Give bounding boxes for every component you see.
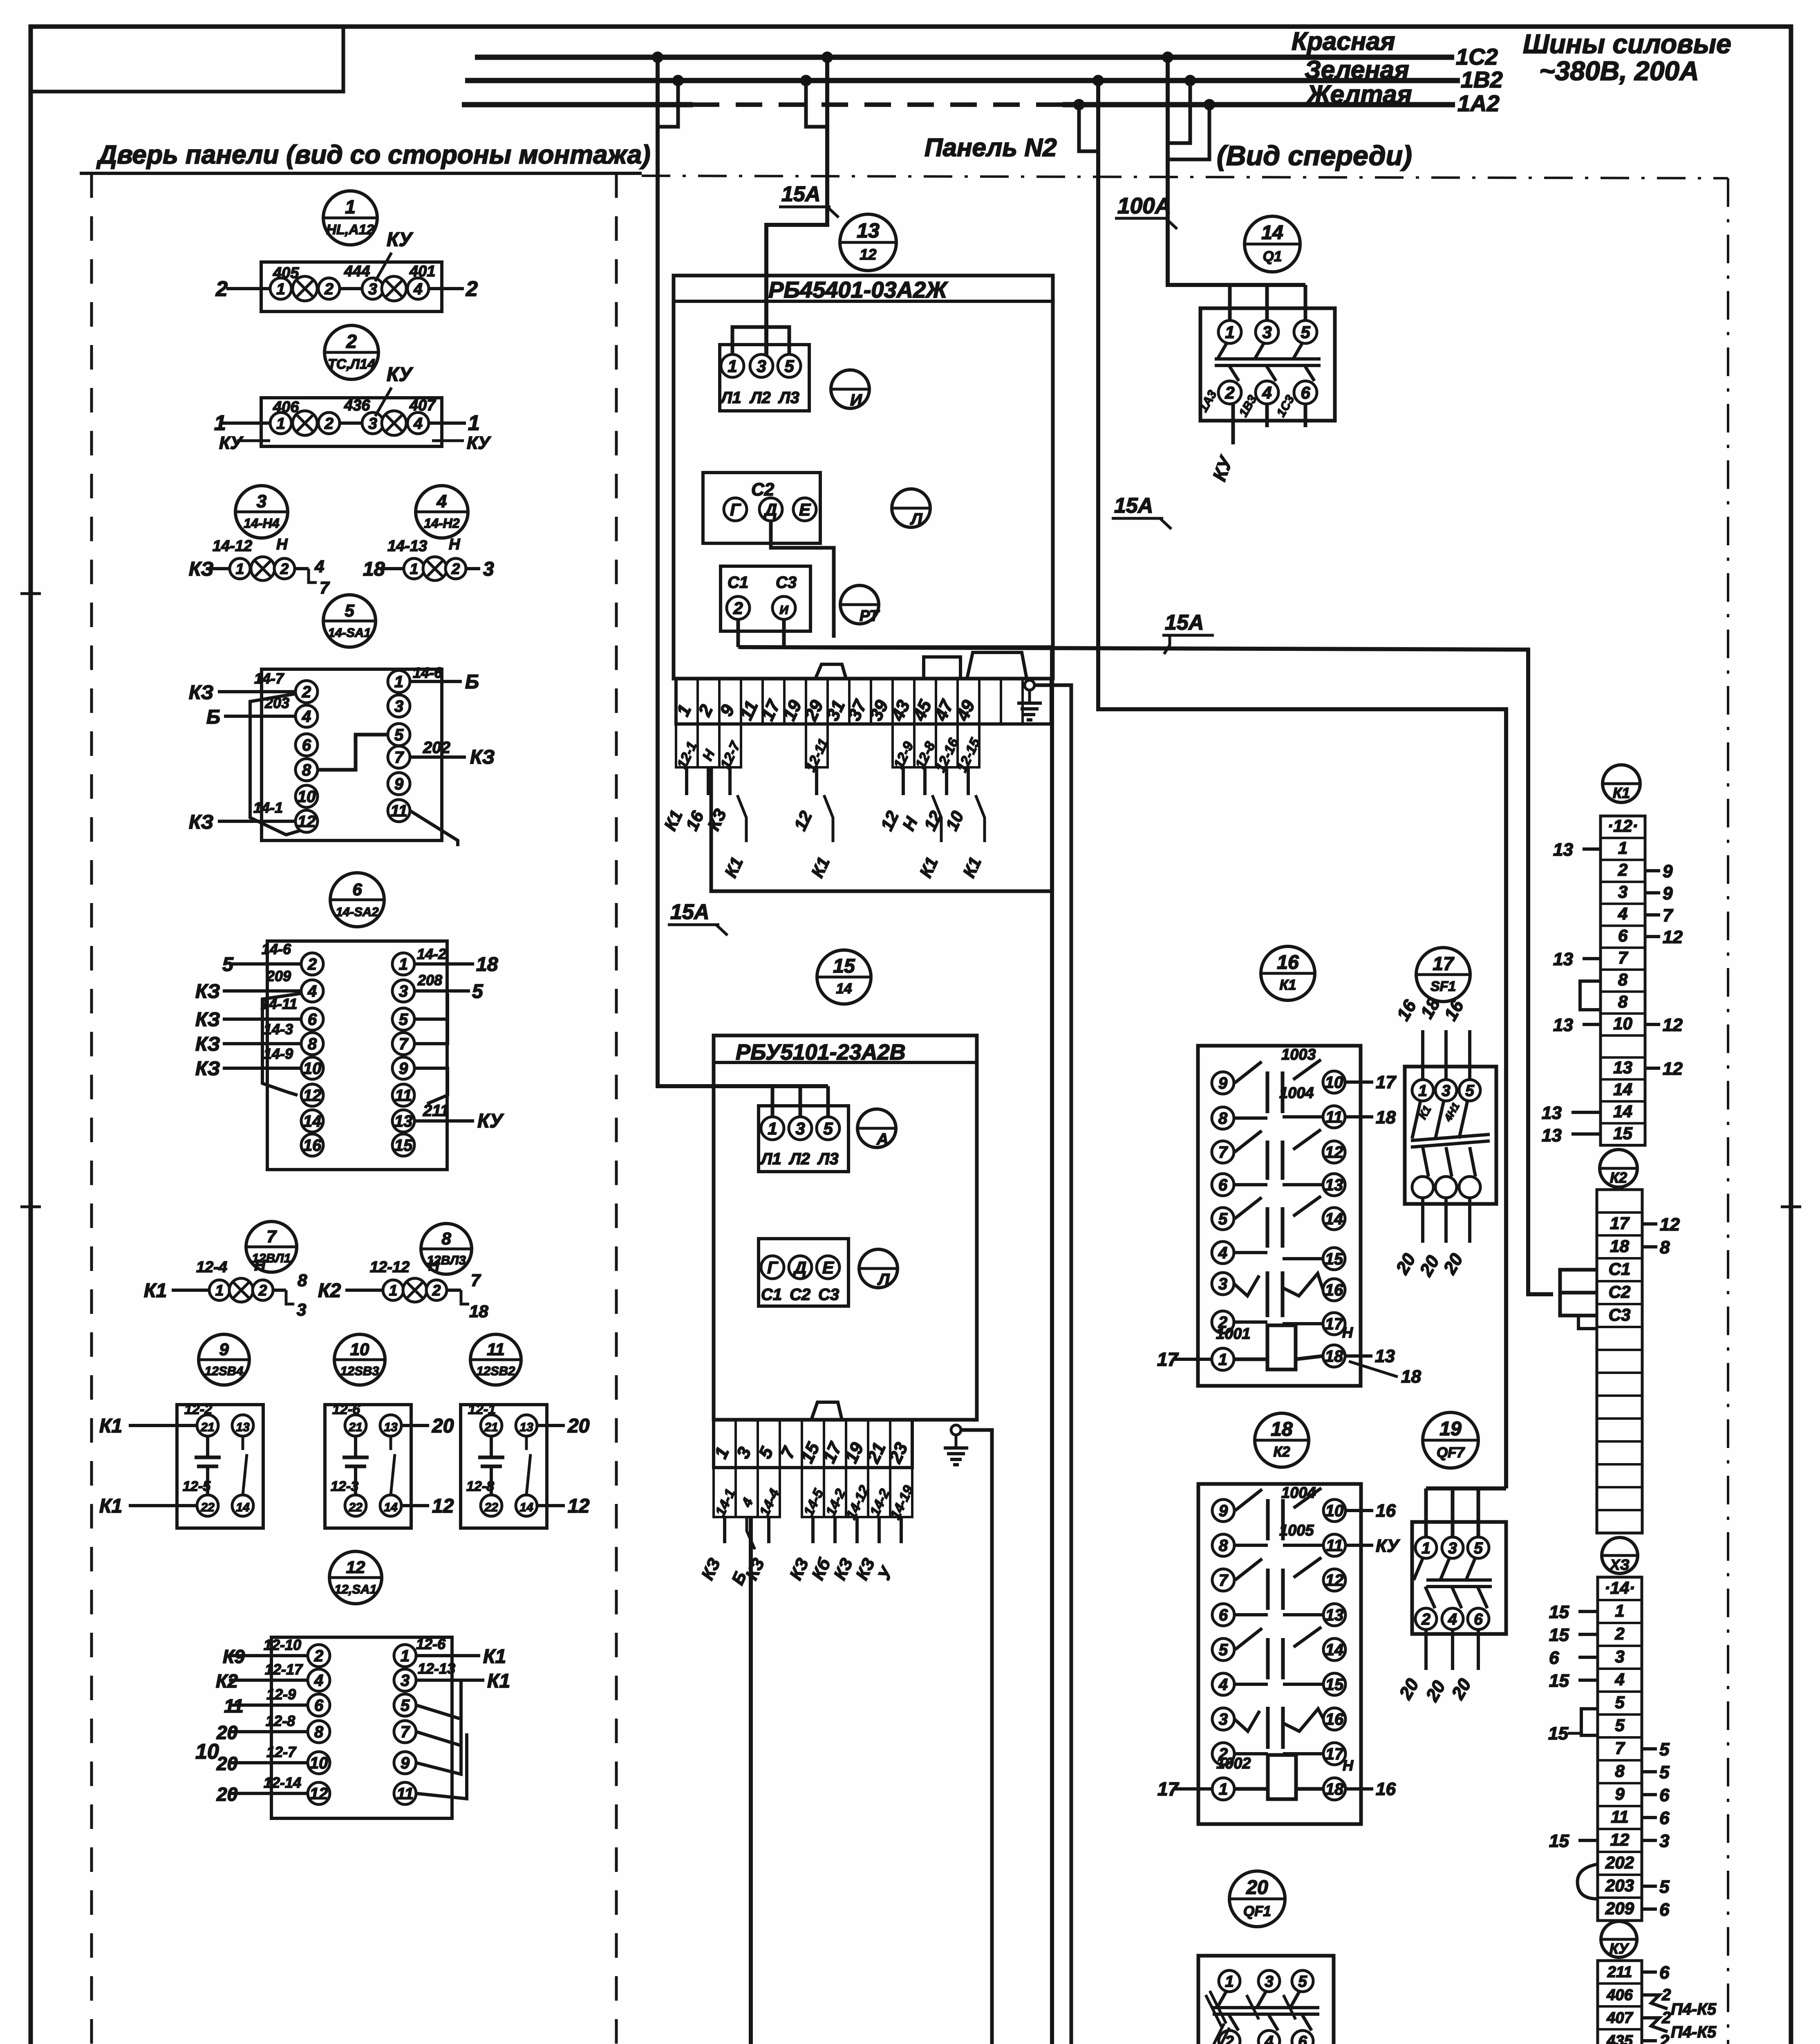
svg-text:12-17: 12-17 xyxy=(265,1661,303,1678)
svg-text:17: 17 xyxy=(1157,1349,1179,1370)
relay К1 pin 2 xyxy=(1212,1311,1234,1333)
svg-text:12-9: 12-9 xyxy=(266,1686,296,1703)
block 13 terminal Д xyxy=(759,498,782,521)
block 13 terminal И xyxy=(772,596,795,619)
relay К2 pin 4 xyxy=(1212,1673,1234,1695)
svg-text:12: 12 xyxy=(1660,1215,1680,1235)
svg-text:2: 2 xyxy=(1618,860,1627,879)
svg-text:14: 14 xyxy=(1325,1641,1344,1659)
breaker 20/QF1 linkage bar xyxy=(1213,2006,1319,2009)
button 10 designator circle xyxy=(334,1334,385,1385)
svg-text:15: 15 xyxy=(1549,1831,1569,1851)
svg-text:406: 406 xyxy=(1606,1986,1633,2004)
svg-text:1: 1 xyxy=(345,196,356,217)
svg-text:12-13: 12-13 xyxy=(418,1660,455,1677)
svg-text:2: 2 xyxy=(324,415,334,433)
svg-text:11: 11 xyxy=(390,802,407,820)
svg-text:РТ: РТ xyxy=(860,607,880,625)
svg-text:1: 1 xyxy=(215,1282,224,1299)
svg-text:13: 13 xyxy=(1325,1176,1343,1194)
svg-text:6: 6 xyxy=(1218,1176,1228,1194)
svg-text:КЗ: КЗ xyxy=(189,558,213,580)
svg-text:14: 14 xyxy=(384,1501,398,1514)
svg-text:1: 1 xyxy=(410,560,419,577)
breaker 14/Q1 terminal 1 xyxy=(1218,320,1241,343)
relay К2 pin 5 xyxy=(1212,1638,1234,1661)
relay К1 pin 15 xyxy=(1323,1248,1345,1270)
block 15 lamp Л circle xyxy=(859,1249,898,1288)
lamp unit 2 terminal 3 xyxy=(362,412,383,434)
svg-text:С2: С2 xyxy=(790,1286,810,1304)
lamp unit 1 HL,A12 designator circle xyxy=(323,191,377,245)
breaker 20/QF1 terminal 2 xyxy=(1219,2031,1240,2044)
svg-text:1: 1 xyxy=(236,560,244,577)
svg-text:14: 14 xyxy=(1325,1210,1343,1228)
switch 6 right terminals 1..15 xyxy=(392,953,414,975)
button 10 box xyxy=(325,1405,411,1528)
svg-text:19: 19 xyxy=(1439,1418,1462,1440)
svg-text:Е: Е xyxy=(799,500,811,519)
svg-text:8: 8 xyxy=(1660,1237,1670,1257)
svg-text:14: 14 xyxy=(1261,222,1283,244)
button 11 terminal 14 xyxy=(516,1495,537,1516)
Q1 output wires 4 6 xyxy=(1265,404,1269,427)
lamp 8 designator circle xyxy=(421,1224,472,1274)
button 9 designator circle xyxy=(199,1334,249,1385)
button 10 actuator symbol xyxy=(354,1436,357,1457)
lamp 4 terminal 2 xyxy=(445,558,466,579)
svg-text:14-7: 14-7 xyxy=(254,670,284,687)
svg-text:1: 1 xyxy=(1418,1082,1427,1100)
svg-text:12: 12 xyxy=(1325,1143,1343,1161)
svg-text:15А: 15А xyxy=(670,900,709,924)
SF1 top wires xyxy=(1421,1030,1424,1080)
КУ strip right stubs xyxy=(1642,1970,1657,1974)
svg-text:3: 3 xyxy=(1618,882,1627,901)
svg-text:4: 4 xyxy=(314,1672,323,1690)
svg-text:6: 6 xyxy=(1301,383,1310,402)
svg-text:Н: Н xyxy=(428,1257,440,1274)
lamp 3 designator circle xyxy=(235,486,288,538)
breaker 14/Q1 pole contacts xyxy=(1218,343,1227,359)
svg-text:4: 4 xyxy=(1218,1244,1227,1262)
svg-text:12: 12 xyxy=(860,246,877,263)
svg-text:14-SА1: 14-SА1 xyxy=(328,625,371,640)
svg-text:С1: С1 xyxy=(761,1286,782,1304)
block 13 wires below strip xyxy=(685,767,688,795)
svg-text:П4-К5: П4-К5 xyxy=(1671,2000,1717,2018)
block 15 terminal Д xyxy=(789,1256,812,1279)
svg-text:16: 16 xyxy=(1325,1281,1343,1299)
svg-text:12-6: 12-6 xyxy=(416,1636,446,1652)
svg-text:12: 12 xyxy=(298,813,316,831)
switch 6 left terminals 2..16 xyxy=(301,953,323,975)
lamp unit 1 lamp HL1 xyxy=(293,276,317,301)
svg-text:3: 3 xyxy=(1448,1540,1457,1557)
lamp 8 lamp xyxy=(403,1278,427,1302)
svg-text:10: 10 xyxy=(1613,1014,1632,1033)
svg-text:8: 8 xyxy=(1615,1761,1625,1780)
breaker 19/QF7 pole contacts xyxy=(1414,1558,1423,1580)
svg-text:К1: К1 xyxy=(483,1646,506,1667)
svg-text:~380В, 200А: ~380В, 200А xyxy=(1539,56,1699,86)
svg-text:10: 10 xyxy=(350,1340,369,1359)
block 13 L1L2L3 terminal box xyxy=(720,345,809,411)
svg-text:6: 6 xyxy=(1474,1611,1483,1628)
block 15 ГДЕ box xyxy=(759,1239,848,1306)
svg-text:Q1: Q1 xyxy=(1263,249,1282,264)
relay К2 pin 16 xyxy=(1323,1708,1345,1730)
svg-text:Б: Б xyxy=(465,671,479,693)
svg-text:13: 13 xyxy=(1542,1103,1562,1123)
relay К1 contact group 4 xyxy=(1234,1275,1259,1296)
svg-text:2: 2 xyxy=(307,955,317,973)
svg-text:13: 13 xyxy=(519,1421,533,1434)
terminal strip К1 designator circle xyxy=(1603,765,1640,802)
bus hook line2 to wire B xyxy=(806,81,827,127)
svg-text:К1: К1 xyxy=(144,1280,167,1302)
svg-text:8: 8 xyxy=(314,1723,324,1741)
block 15 wires below strip xyxy=(723,1517,726,1543)
svg-text:2: 2 xyxy=(733,598,743,618)
svg-text:4: 4 xyxy=(314,557,324,576)
block 13 lamp Л circle xyxy=(892,489,930,527)
svg-text:Зеленая: Зеленая xyxy=(1305,56,1409,84)
block 13 internal bottom wire xyxy=(738,645,1052,649)
svg-text:9: 9 xyxy=(219,1340,229,1359)
svg-text:11: 11 xyxy=(1611,1807,1629,1826)
svg-text:12-8: 12-8 xyxy=(466,1479,494,1494)
svg-text:3: 3 xyxy=(1442,1082,1451,1100)
ХЗ strip left hook 202 xyxy=(1578,1864,1598,1899)
wire block15 ground to null bus xyxy=(961,1430,992,2044)
breaker 20/QF1 box xyxy=(1198,1956,1334,2044)
svg-text:211: 211 xyxy=(1607,1963,1632,1981)
svg-text:1С2: 1С2 xyxy=(1456,44,1498,69)
lamp unit 1 terminal 2 xyxy=(318,278,340,299)
block 13 internal wires from C1 C3 xyxy=(737,619,740,647)
svg-text:4: 4 xyxy=(302,708,311,726)
relay К1 pin 14 xyxy=(1323,1208,1345,1230)
breaker SF1 box xyxy=(1405,1067,1496,1204)
svg-text:К2: К2 xyxy=(216,1670,238,1692)
svg-text:4: 4 xyxy=(1262,383,1272,402)
relay К2 pin 11 xyxy=(1323,1534,1345,1556)
svg-text:11: 11 xyxy=(224,1695,244,1717)
block 13 lower K1 wire labels xyxy=(737,795,746,842)
svg-text:6: 6 xyxy=(302,736,311,754)
svg-text:Н: Н xyxy=(1343,1757,1354,1774)
svg-text:К1: К1 xyxy=(1613,784,1630,801)
svg-text:10: 10 xyxy=(1325,1502,1344,1520)
relay К2 contact group 2 xyxy=(1235,1559,1262,1580)
svg-text:2: 2 xyxy=(314,1647,323,1665)
switch 12 left pin wires xyxy=(229,1654,308,1657)
block 13 terminal 1 xyxy=(721,354,744,377)
svg-text:12-7: 12-7 xyxy=(266,1744,297,1760)
svg-text:14-Н4: 14-Н4 xyxy=(244,516,279,531)
svg-text:·14·: ·14· xyxy=(1605,1578,1635,1597)
breaker SF1 pole contacts xyxy=(1412,1102,1420,1139)
bus 1A2 yellow phase xyxy=(462,102,693,108)
svg-text:20: 20 xyxy=(216,1753,238,1774)
block 13 C1 C3 box xyxy=(721,566,810,631)
svg-text:ХЗ: ХЗ xyxy=(1609,1556,1630,1573)
relay К1 pin 13 xyxy=(1323,1174,1345,1196)
ХЗ strip left bracket 5-5 xyxy=(1581,1709,1598,1735)
relay К1 pin 16 xyxy=(1323,1279,1345,1301)
svg-text:1002: 1002 xyxy=(1216,1755,1251,1772)
lamp unit 2 terminal 2 xyxy=(318,412,340,434)
lamp unit 1 box xyxy=(261,262,442,312)
switch 6 right wires xyxy=(414,962,474,966)
svg-text:203: 203 xyxy=(264,695,289,711)
svg-text:14-6: 14-6 xyxy=(413,664,443,681)
block 13 lamp РТ circle xyxy=(840,585,879,624)
lamp 7 terminal 2 xyxy=(253,1280,273,1300)
relay К2 contact group 1 xyxy=(1235,1489,1262,1511)
breaker 19/QF7 terminal 2 xyxy=(1415,1608,1437,1629)
button 11 actuator symbol xyxy=(490,1436,493,1457)
relay К1 coil xyxy=(1267,1325,1296,1369)
svg-text:203: 203 xyxy=(1605,1876,1634,1895)
breaker 20/QF1 terminal 5 xyxy=(1292,1970,1313,1992)
lamp unit 1 wiring xyxy=(226,287,281,290)
svg-text:12: 12 xyxy=(346,1558,365,1577)
svg-text:QF7: QF7 xyxy=(1437,1445,1465,1461)
switch 5 right wires xyxy=(410,680,462,683)
svg-text:2: 2 xyxy=(451,560,460,577)
svg-text:К2: К2 xyxy=(1274,1444,1291,1460)
svg-text:5: 5 xyxy=(1465,1082,1475,1100)
svg-text:1: 1 xyxy=(276,280,285,298)
lamp 3 lamp xyxy=(251,557,275,580)
lamp 4 wiring xyxy=(382,567,414,570)
relay К2 pin 15 xyxy=(1323,1673,1345,1695)
block 13 terminal 2 xyxy=(727,596,750,619)
frame fold tick right xyxy=(1781,1206,1801,1208)
bus 1C2 red phase xyxy=(475,55,1454,60)
svg-text:15А: 15А xyxy=(1114,494,1153,518)
switch 12 right terminals 1..11 xyxy=(394,1645,416,1667)
svg-text:3: 3 xyxy=(757,356,766,376)
svg-text:14-6: 14-6 xyxy=(262,941,291,957)
svg-text:1: 1 xyxy=(1422,1540,1430,1557)
svg-text:Л1: Л1 xyxy=(760,1150,781,1168)
bus hook line2 to wire A xyxy=(658,81,678,127)
svg-text:(Вид спереди): (Вид спереди) xyxy=(1217,140,1412,171)
relay К2 pin 3 xyxy=(1212,1708,1234,1730)
К1 strip left stubs 13 xyxy=(1583,847,1601,851)
breaker 20/QF1 pole contacts xyxy=(1217,1992,1226,2008)
svg-text:7: 7 xyxy=(471,1271,481,1290)
button 11 right wires xyxy=(537,1424,565,1427)
svg-text:12-8: 12-8 xyxy=(266,1712,295,1729)
svg-text:П4-К5: П4-К5 xyxy=(1671,2023,1717,2041)
svg-text:Л1: Л1 xyxy=(720,389,741,407)
svg-text:·12·: ·12· xyxy=(1607,816,1638,836)
wire block15 strip to null bus xyxy=(749,1517,753,2044)
svg-text:12-14: 12-14 xyxy=(264,1774,301,1791)
relay К1 pin 11 xyxy=(1323,1106,1345,1128)
svg-text:14: 14 xyxy=(519,1501,533,1514)
svg-text:Панель N2: Панель N2 xyxy=(925,134,1057,162)
svg-text:5: 5 xyxy=(345,601,354,620)
block 15 terminal strip xyxy=(714,1420,912,1468)
svg-text:8: 8 xyxy=(441,1229,451,1248)
lamp 8 wiring xyxy=(345,1289,382,1292)
svg-text:КУ: КУ xyxy=(1376,1536,1400,1556)
svg-text:13: 13 xyxy=(1375,1346,1395,1366)
svg-text:1: 1 xyxy=(394,673,403,691)
terminal strip КУ xyxy=(1598,1961,1642,2044)
svg-text:5: 5 xyxy=(472,981,484,1002)
svg-text:10: 10 xyxy=(298,788,316,806)
svg-text:КЗ: КЗ xyxy=(189,682,213,704)
button 9 actuator symbol xyxy=(206,1436,209,1457)
svg-text:16: 16 xyxy=(1277,952,1299,973)
lamp unit 2 lamp HL2 xyxy=(382,411,406,435)
svg-text:5: 5 xyxy=(1659,1762,1670,1782)
terminal strip К1 xyxy=(1601,816,1645,1145)
block 13 outline РБ45401-03А2Ж xyxy=(674,276,1053,679)
lamp unit 1 lamp HL2 xyxy=(382,276,406,301)
svg-text:К9: К9 xyxy=(223,1646,245,1667)
svg-text:5: 5 xyxy=(1659,1739,1670,1759)
svg-text:3: 3 xyxy=(394,697,403,715)
svg-text:16: 16 xyxy=(1325,1710,1344,1728)
svg-text:К1: К1 xyxy=(1280,977,1296,993)
svg-text:3: 3 xyxy=(368,415,377,433)
terminal strip КУ designator circle xyxy=(1601,1921,1637,1957)
svg-text:К2: К2 xyxy=(318,1280,341,1302)
svg-text:9: 9 xyxy=(1615,1784,1625,1803)
lamp unit 1 terminal 1 xyxy=(270,278,291,299)
breaker 19/QF7 box xyxy=(1412,1522,1506,1634)
block 13 terminal Г xyxy=(724,498,747,521)
lamp 7 terminal 1 xyxy=(209,1280,230,1300)
lamp 3 terminal 1 xyxy=(230,558,250,579)
svg-text:17: 17 xyxy=(1325,1745,1344,1763)
wire block13 right edge to null bus xyxy=(1050,647,1054,2044)
svg-text:14-2: 14-2 xyxy=(417,946,446,962)
block 13 jumper bumps over strip xyxy=(924,657,960,679)
relay К2 pin 9 xyxy=(1212,1499,1234,1522)
svg-text:8: 8 xyxy=(1618,992,1628,1011)
svg-text:15: 15 xyxy=(1549,1671,1569,1691)
svg-text:9: 9 xyxy=(1219,1502,1228,1520)
svg-text:1: 1 xyxy=(728,356,737,376)
SF1 bottom wires xyxy=(1421,1198,1424,1243)
relay К2 pin 17 xyxy=(1323,1743,1345,1765)
breaker 19/QF7 terminal 5 xyxy=(1468,1537,1489,1558)
svg-text:5: 5 xyxy=(1659,1877,1670,1897)
svg-text:4: 4 xyxy=(1448,1611,1457,1628)
svg-text:436: 436 xyxy=(344,397,370,414)
lamp unit 1 terminal 4 xyxy=(407,278,429,299)
lamp 4 terminal 1 xyxy=(404,558,424,579)
svg-text:6: 6 xyxy=(1549,1648,1559,1668)
button 10 terminal 13 xyxy=(380,1415,401,1436)
svg-text:20: 20 xyxy=(216,1784,238,1805)
relay К1 designator circle xyxy=(1261,946,1315,1000)
svg-text:202: 202 xyxy=(423,739,450,757)
relay К2 coil xyxy=(1268,1755,1296,1799)
svg-text:18: 18 xyxy=(1325,1780,1344,1798)
svg-text:11: 11 xyxy=(487,1340,505,1359)
svg-text:Г: Г xyxy=(767,1258,779,1277)
svg-text:9: 9 xyxy=(1663,861,1673,881)
svg-text:1: 1 xyxy=(276,415,285,433)
lamp 3 wiring xyxy=(206,567,240,570)
svg-text:1: 1 xyxy=(1218,1351,1227,1369)
svg-text:КЗ: КЗ xyxy=(195,981,220,1002)
svg-text:3: 3 xyxy=(483,558,494,580)
block13 lamp jumper xyxy=(732,327,789,354)
svg-text:14-13: 14-13 xyxy=(387,538,427,555)
relay К2 contact group 4 xyxy=(1234,1711,1260,1731)
svg-text:407: 407 xyxy=(1606,2009,1633,2026)
svg-text:4: 4 xyxy=(1614,1670,1624,1689)
svg-text:КУ: КУ xyxy=(387,364,414,385)
button 11 contact xyxy=(525,1436,528,1450)
switch 12 designator circle xyxy=(329,1551,382,1604)
svg-text:1: 1 xyxy=(214,411,226,435)
terminal strip К2 designator circle xyxy=(1600,1150,1637,1187)
block 13 internal wire from Д xyxy=(771,521,834,638)
svg-text:1: 1 xyxy=(389,1282,398,1299)
svg-text:2: 2 xyxy=(258,1282,267,1299)
bus tap hook line2 to Q1 xyxy=(1168,81,1190,143)
svg-text:13: 13 xyxy=(394,1112,413,1130)
svg-text:20: 20 xyxy=(567,1415,590,1437)
breaker SF1 lower terminals xyxy=(1412,1177,1433,1198)
breaker 14/Q1 terminal 5 xyxy=(1294,320,1317,343)
relay К1 contact group 2 xyxy=(1235,1131,1262,1152)
svg-text:3: 3 xyxy=(1265,1973,1274,1990)
svg-text:7: 7 xyxy=(266,1227,277,1246)
svg-text:14-1: 14-1 xyxy=(253,799,283,816)
Q1 input wires from bus xyxy=(1168,57,1305,285)
svg-text:12-10: 12-10 xyxy=(264,1636,301,1653)
breaker 14/Q1 terminal 4 xyxy=(1256,381,1278,404)
frame fold tick left lower xyxy=(20,1206,41,1208)
relay К2 pin 1 xyxy=(1212,1778,1234,1800)
block 15 outline РБУ5101-23А2В xyxy=(714,1035,977,1420)
svg-text:2: 2 xyxy=(215,277,228,301)
svg-text:8: 8 xyxy=(1618,970,1628,989)
svg-text:К1: К1 xyxy=(99,1495,122,1517)
relay К1 pin 3 xyxy=(1212,1273,1234,1295)
breaker 20/QF1 terminal 6 xyxy=(1292,2031,1313,2044)
svg-text:1А2: 1А2 xyxy=(1457,90,1500,116)
panel boundary dash-dot horizontal top xyxy=(642,176,1728,178)
breaker 14/Q1 designator circle xyxy=(1245,216,1300,272)
svg-text:11: 11 xyxy=(1326,1537,1343,1555)
svg-text:5: 5 xyxy=(823,1119,833,1138)
svg-text:Н: Н xyxy=(449,536,461,553)
svg-text:7: 7 xyxy=(1618,948,1628,967)
breaker SF1 terminal 3 xyxy=(1435,1080,1457,1101)
svg-text:12: 12 xyxy=(1663,927,1683,947)
svg-text:И: И xyxy=(850,391,862,409)
svg-text:2: 2 xyxy=(302,683,311,701)
button 11 terminal 13 xyxy=(516,1415,537,1436)
svg-text:С1: С1 xyxy=(728,574,748,592)
svg-text:22: 22 xyxy=(348,1501,363,1514)
svg-text:13: 13 xyxy=(1325,1606,1344,1624)
svg-text:5: 5 xyxy=(1474,1540,1483,1557)
